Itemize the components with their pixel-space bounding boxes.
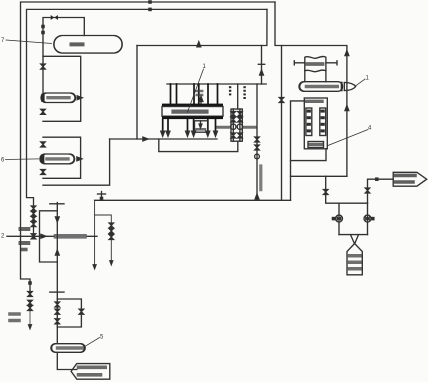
label right of pump loop — [245, 126, 256, 129]
chemical loop box — [57, 299, 81, 327]
wire heater1 steam loop — [43, 56, 81, 121]
valve on chem loop right edge — [79, 309, 83, 314]
condensate pump label box in condenser — [308, 142, 324, 148]
wire second loop: inner border pipe — [27, 9, 268, 236]
heating valve loop left branch — [338, 203, 340, 234]
wire demineralized water line — [7, 235, 97, 237]
arrow up on condensate line — [260, 70, 264, 75]
wire heater drain line to evaporator — [43, 139, 110, 185]
wire drop to heating valve loop — [326, 176, 368, 203]
label left of pump loop — [218, 126, 230, 129]
valve on demin line at x33.5 — [31, 234, 35, 239]
heat-exchanger E2 LP heater capsule — [40, 154, 75, 164]
nozzle cone of E3 — [344, 82, 355, 90]
valves on chem loop left edge — [55, 302, 59, 307]
wire heater2 steam loop — [43, 137, 81, 178]
feed pump P1 branch — [232, 109, 234, 141]
valve on downcomer y111.8 — [41, 109, 45, 114]
wire evaporator bottom collection line — [110, 138, 217, 140]
valve tri up on riser — [55, 250, 59, 255]
heat-exchanger E1 LP heater capsule — [41, 93, 76, 103]
wire flag feed riser — [368, 179, 394, 203]
arrow right on demin line — [41, 234, 46, 238]
end flange bar on E3 — [341, 82, 343, 92]
arrow up on right riser y54 — [345, 51, 349, 56]
wire heating supply line — [291, 175, 347, 177]
wire heating loop bottom — [339, 234, 368, 236]
flag outfall to landfill — [71, 364, 110, 380]
wire central box top edge — [137, 9, 267, 45]
softener loop box — [40, 211, 58, 262]
valve on V1 — [279, 98, 283, 103]
condenser tube bundle left — [306, 108, 312, 136]
wire plate HX outlet to flag — [57, 352, 77, 369]
valve on condensate line y139.5 — [255, 137, 259, 142]
evaporator lower drum band — [162, 116, 223, 119]
evaporator upper drum band — [162, 104, 223, 107]
evaporator upper small box with label — [197, 90, 202, 93]
tick on condensate line — [258, 63, 264, 65]
evaporator label box — [162, 107, 223, 117]
break dash on riser — [50, 203, 64, 205]
stub with dash at left end of long line — [101, 192, 103, 201]
wire condenser bottom outlet — [291, 149, 327, 161]
house heating network pump station — [347, 244, 362, 275]
drain chain from header x244.8 — [229, 86, 231, 95]
wire softener riser — [56, 203, 58, 344]
feed pump P2 branch — [239, 109, 241, 141]
evaporator header line — [167, 83, 266, 85]
valve chain on makeup line x33.5 — [31, 206, 35, 211]
valve small on downcomer y27 — [42, 25, 44, 27]
heat-exchanger E3 exhaust steam LT exchanger capsule — [299, 82, 343, 92]
label text above demin line — [21, 227, 30, 231]
pump circle on condensate line — [255, 154, 260, 159]
valve chain on outer loop bottom x30 — [29, 282, 31, 284]
funnel neck to pump house — [351, 235, 359, 244]
arrow heater2 outlet — [77, 157, 82, 161]
label demin treatment text on line — [55, 233, 87, 240]
feed pump loop box — [231, 109, 242, 141]
wire outer steam loop: top and left border pipe — [21, 2, 276, 292]
heating valve loop right branch — [367, 203, 369, 234]
wire central box left edge — [136, 46, 138, 140]
label text below demin line — [21, 241, 30, 245]
wire V1 drop from supply line — [281, 46, 283, 201]
drain chain from header x254.5 — [243, 86, 245, 99]
valve on drop x325.7 — [324, 190, 328, 195]
turbine T1 low pressure cylinder — [305, 56, 326, 81]
arrow heater1 outlet — [77, 96, 82, 100]
label text on drum — [72, 42, 83, 46]
valve blob at heater2 inlet — [41, 155, 45, 163]
vertical label condensate pump — [259, 166, 262, 192]
valve on downcomer y144.4 — [41, 142, 45, 147]
valve tri down on riser — [55, 217, 59, 222]
valve small on downcomer y33.5 — [42, 31, 44, 33]
condenser box — [304, 98, 327, 149]
globe valve right — [364, 215, 371, 222]
wire condensate return long line — [95, 199, 291, 201]
node junction on outer loop — [149, 1, 151, 3]
label text near outer drain — [10, 312, 19, 316]
heat-exchanger E5 plate HX capsule — [51, 344, 85, 353]
flag to district heating supply — [393, 172, 427, 186]
condenser tube bundle right — [320, 108, 326, 136]
arrow up into bottom line — [255, 194, 259, 199]
wire thin drain with arrow — [29, 310, 31, 326]
wire steam supply top right — [275, 2, 347, 176]
wire condensate line from box top through header down to bottom — [261, 46, 263, 85]
valve on downcomer y66.6 — [41, 64, 45, 69]
wire second collection line to feed pumps — [159, 139, 238, 152]
valve on flag riser — [365, 188, 369, 193]
valve on condensate line y147.5 — [255, 145, 259, 150]
break dash2 on riser — [50, 291, 64, 293]
evaporator lower small box with label — [195, 121, 209, 132]
valve pair on recirculation line — [51, 15, 58, 20]
vessel V7 deaerator drum — [54, 36, 122, 54]
evaporator lower downcomer tubes with arrows — [163, 119, 216, 132]
arrow up under small box — [200, 100, 202, 104]
arrow up on right riser y108 — [345, 106, 349, 111]
wire branch to valve chain x111.3 — [95, 215, 112, 262]
wire drum top recirculation line — [43, 18, 84, 96]
globe valve left — [336, 215, 343, 222]
wire drain drop at x94.6 — [94, 200, 96, 266]
wire condenser left connection — [291, 101, 305, 200]
node junction on flag feed — [376, 178, 378, 180]
valve on downcomer y172 — [41, 170, 45, 175]
valve blob at heater1 inlet — [41, 94, 44, 102]
arrow right on collection line — [143, 137, 148, 141]
turbine shaft right — [326, 61, 337, 65]
arrow up on central box top edge — [197, 42, 201, 47]
turbine shaft left — [294, 61, 305, 65]
evaporator upper riser tubes — [171, 84, 218, 104]
node junction on second loop — [149, 8, 151, 10]
